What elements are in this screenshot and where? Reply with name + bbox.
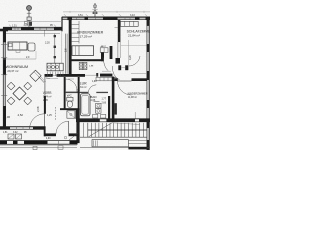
entry door diagonal [69, 133, 79, 141]
wardrobe kinderzimmer shelves [72, 21, 79, 44]
left wall window mid line [4, 30, 6, 127]
kitchen unit row [47, 63, 63, 71]
kinder door threshold [85, 74, 97, 76]
wohnraum door arc [30, 114, 45, 129]
top wall B mullions [14, 27, 16, 30]
left wall pier 1 [3, 27, 6, 42]
entry bottom wall [44, 133, 56, 136]
top wall A corner pier [146, 17, 151, 20]
top wall A mullion pier [85, 17, 89, 20]
rug line wohnraum [3, 58, 36, 60]
dark duct block [114, 103, 117, 114]
scan grain overlay [0, 0, 150, 150]
chair SW [7, 97, 15, 105]
bed pillow line [78, 46, 80, 56]
dimension ticks above wall B [9, 25, 56, 27]
flower box 2 [16, 134, 22, 139]
tree symbol side mark [25, 21, 28, 23]
left wall pier 2 [3, 58, 6, 75]
dashed dimension line [55, 107, 57, 121]
top wall A pier 2 [103, 17, 118, 20]
basin double square [96, 103, 101, 108]
small mark bottom [33, 146, 37, 149]
railing white slots [7, 141, 13, 144]
door jamb 2 [125, 65, 128, 70]
kitchen hatch ticks [48, 72, 63, 76]
wohnraum bottom wall inner [0, 128, 46, 130]
right wall pier 3 [147, 71, 150, 80]
BAD door arc [88, 85, 96, 93]
flower box 1 [8, 134, 14, 139]
WC door arc [66, 79, 77, 91]
right wall pier 5 [147, 119, 150, 128]
schlaf room bottom thin line [131, 72, 147, 74]
wall F right room top [114, 78, 117, 81]
toilet bowl [67, 101, 72, 108]
small mark below sofa [16, 50, 20, 52]
survey symbol 2 head [93, 5, 96, 8]
tick below right room [134, 112, 136, 118]
stair left wall [76, 120, 79, 144]
top wall A inner face [62, 19, 150, 21]
bottom wall right part outer [76, 118, 150, 120]
closet boxes between rooms [100, 48, 108, 53]
schlafzimmer wardrobe [120, 21, 138, 26]
bottom wall B mullions [16, 127, 18, 130]
bottom dark segment right [128, 147, 146, 150]
vorr divider top line [44, 31, 46, 37]
right wall pier 1 [147, 17, 150, 26]
small box below band [58, 146, 63, 149]
kitchen cell dividers [50, 63, 52, 71]
wall WC/BAD [78, 77, 80, 120]
balcony block on stem [29, 22, 32, 26]
wohnraum bottom wall outer [0, 126, 46, 128]
top wall A outer face [62, 16, 150, 18]
balcony line above wall B [8, 21, 62, 23]
left wall inner face [5, 30, 7, 127]
armchair rotated [30, 70, 41, 81]
wardrobe dividers [124, 21, 126, 26]
kueche top wall [72, 59, 105, 61]
right wall pier 6 [147, 140, 150, 150]
small boxes above bottom wall [93, 114, 98, 118]
stove burners [52, 66, 55, 69]
dark block right [110, 46, 113, 59]
step wall between wall A and wall B [61, 17, 62, 32]
right wall outer face [148, 17, 150, 150]
sink circle [48, 66, 51, 69]
wall BAD right [108, 96, 110, 119]
vestibule lines [83, 123, 85, 137]
vorraum left wall thin upper [43, 77, 45, 96]
divider wall KINDERZIMMER/SCHLAFZIMMER upper [118, 20, 121, 42]
central wall E segment right [100, 74, 112, 77]
sofa wohnraum [8, 42, 27, 50]
kinderzimmer left wall [69, 20, 72, 75]
WC bottom wall [60, 108, 80, 110]
tree symbol stem [28, 11, 30, 28]
central wall E segment left [45, 74, 53, 77]
dark block left of closet [101, 52, 104, 61]
wohnraum bottom wall piers [0, 127, 10, 130]
survey symbol 2 ticks [92, 9, 97, 12]
entry door arc [56, 121, 69, 134]
vorraum divider wall [44, 96, 46, 114]
left wall pier 3 [3, 106, 6, 121]
entry jog wall vertical [44, 127, 46, 137]
dark block divider bottom [116, 58, 121, 64]
left wall pier 4 [3, 121, 6, 129]
step inner line [61, 31, 63, 63]
bed kinderzimmer [72, 46, 94, 56]
wall FLUR bottom thin [66, 92, 80, 94]
right wall pier 4 [147, 100, 150, 108]
bottom wall right piers [76, 119, 100, 122]
sofa cushion mark [9, 43, 12, 46]
right wall inner face [146, 17, 148, 150]
door jamb 1 [118, 65, 121, 70]
tick left of divider [115, 27, 118, 29]
dining table diamond [13, 87, 26, 100]
bathtub [80, 94, 90, 116]
kitchen nook thin wall [54, 34, 56, 64]
vorr door ticks [39, 77, 45, 83]
wall VORR/WC [64, 77, 66, 109]
schlaf door swing lower arc [112, 66, 119, 80]
bathtub inner [82, 95, 89, 114]
top wall A pier 1 [67, 17, 72, 21]
flur small marks [68, 78, 74, 80]
line below railing [0, 146, 77, 148]
balcony parapet line top [63, 11, 150, 13]
left wall outer face [2, 27, 4, 129]
BAD north wall segments [80, 92, 89, 93]
stair treads [92, 123, 144, 137]
closet strip wall lines [65, 34, 67, 74]
stair diagonal [89, 123, 113, 137]
divider thin continuation [117, 42, 119, 58]
schlafzimmer dimension line [128, 40, 130, 70]
stair middle rail [88, 129, 147, 131]
kueche sink [83, 62, 87, 69]
kueche stove [79, 62, 83, 69]
top wall A window mullion ticks [76, 17, 78, 20]
top wall B pier right [54, 27, 62, 30]
survey symbol 2 stem [94, 3, 96, 17]
chair NE [24, 82, 32, 90]
top wall A pier 3 [135, 17, 140, 20]
right wall pier 2 [147, 44, 150, 52]
chair SE [24, 97, 32, 105]
top wall B pier left [3, 27, 12, 30]
washbasin tap [94, 101, 100, 103]
side table [28, 43, 35, 51]
wall below divider to kitchen room [112, 77, 115, 120]
schlafzimmer door arc [129, 56, 140, 66]
tree symbol box [27, 17, 31, 20]
dimension ticks above wall A [64, 14, 147, 16]
survey symbol 2 blocks [93, 12, 95, 14]
top wall B mullion pier [21, 27, 34, 30]
balcony railing thick band [0, 140, 78, 144]
schlafzimmer thin line [121, 45, 147, 47]
tree symbol head [27, 6, 32, 11]
stair bottom line [80, 136, 147, 138]
bottom wall right part inner [76, 121, 150, 123]
chair NW [7, 82, 15, 90]
bottom lines under stairs [80, 147, 150, 149]
right room door arc [118, 81, 132, 95]
entry door leaf [68, 121, 70, 134]
top wall A window sill [62, 17, 150, 19]
top wall B secondary inner line [3, 33, 60, 35]
parapet ticks [69, 11, 71, 13]
stair landing rectangle [92, 140, 128, 147]
lower flight lines right of landing [128, 140, 146, 142]
wall B left end stub [0, 29, 8, 32]
right room door leaf [118, 80, 132, 82]
kueche door arc [103, 58, 108, 71]
top wall B outer face [3, 26, 62, 28]
landing marks [93, 140, 95, 146]
toilet cistern [67, 97, 73, 101]
top wall B inner face [3, 29, 62, 31]
shower DU [67, 111, 75, 118]
thin line below band [0, 145, 77, 147]
wohnraum door leaf [44, 114, 46, 129]
